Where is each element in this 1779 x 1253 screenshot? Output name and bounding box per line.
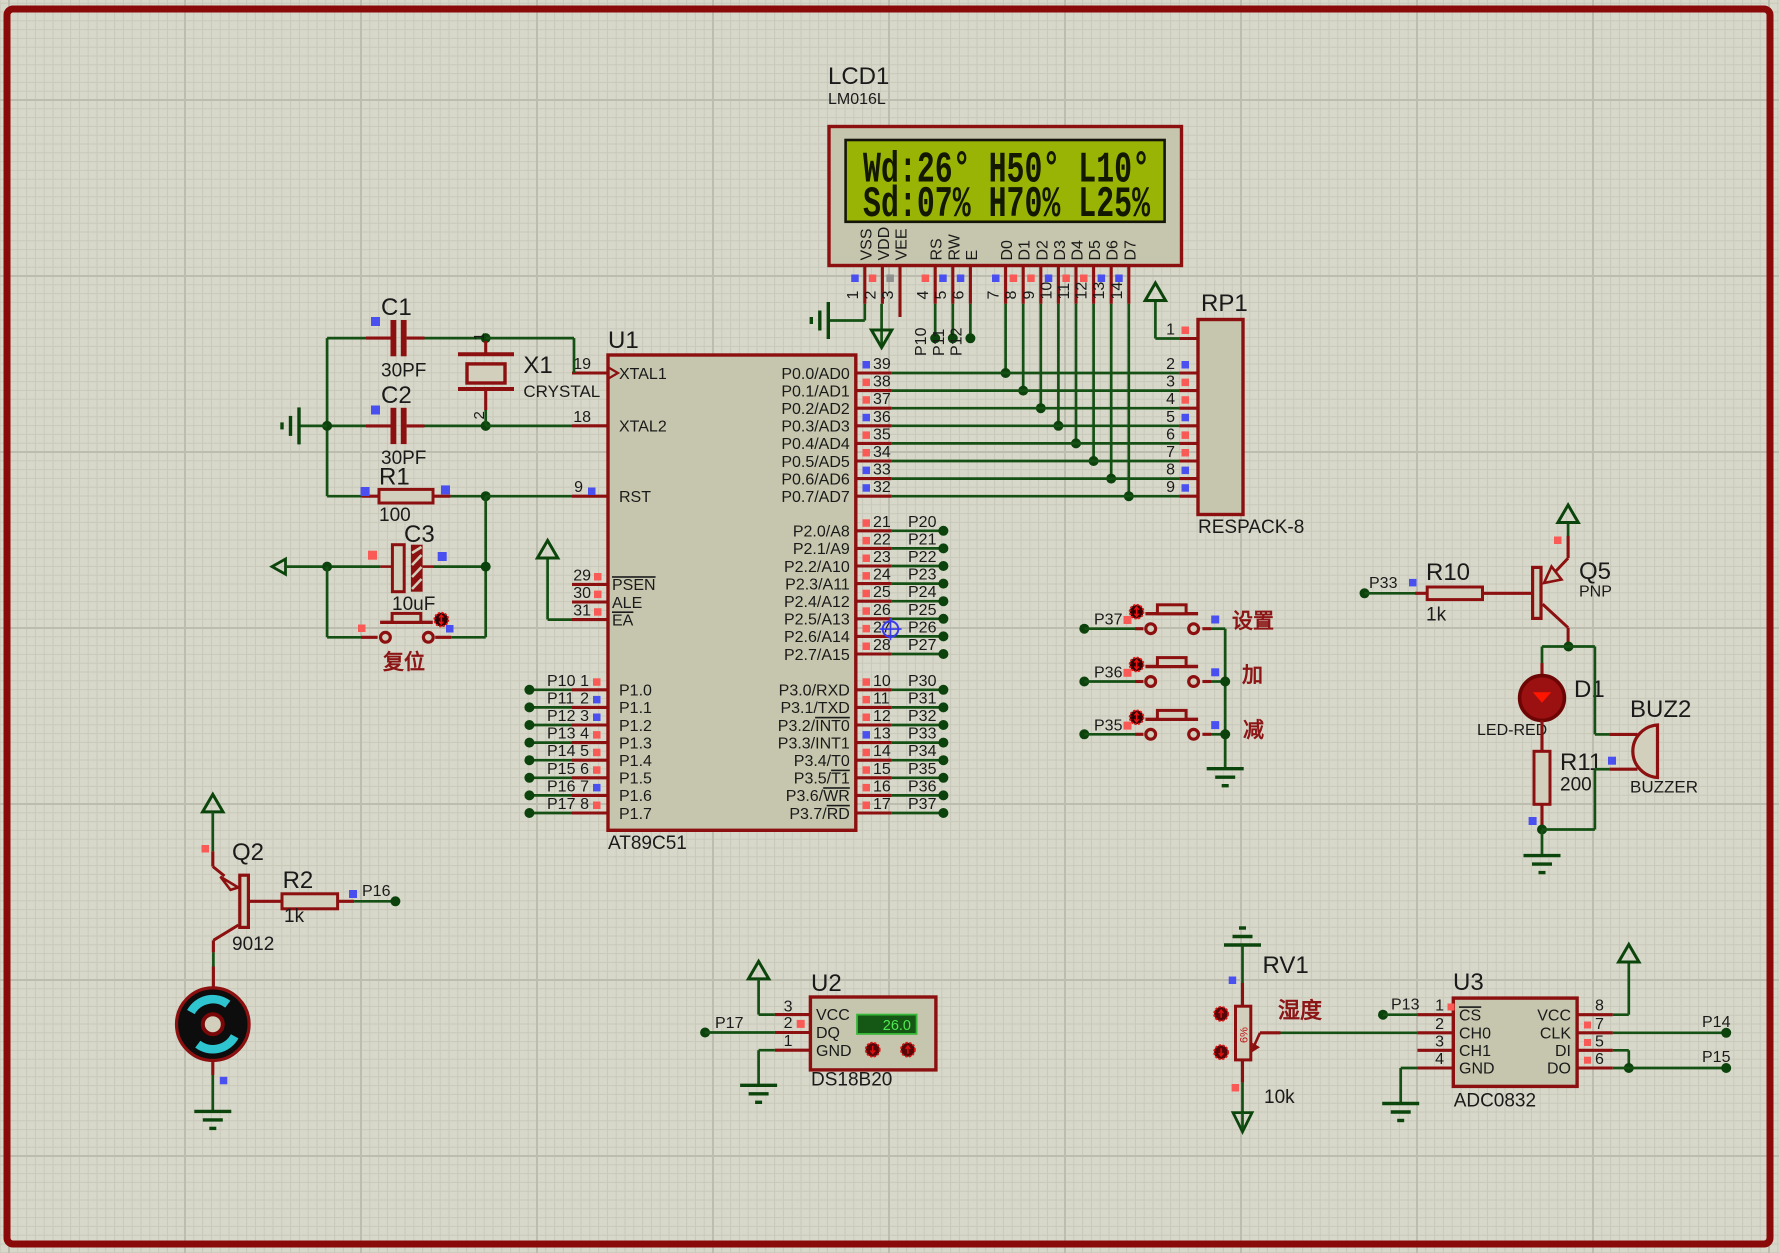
svg-text:26: 26 <box>873 602 891 619</box>
svg-text:6%: 6% <box>1239 1027 1251 1043</box>
svg-text:P37: P37 <box>1094 612 1123 629</box>
svg-text:2: 2 <box>862 291 879 300</box>
wire LCD RW pin5 to node P11 <box>951 304 954 335</box>
svg-text:P2.7/A15: P2.7/A15 <box>784 647 850 664</box>
svg-text:8: 8 <box>1595 998 1604 1015</box>
wire button P36 to common <box>1202 680 1225 683</box>
svg-text:P1.4: P1.4 <box>619 753 652 770</box>
svg-text:VDD: VDD <box>876 227 893 261</box>
svg-text:1: 1 <box>784 1033 793 1050</box>
LED D1 LED-RED <box>1477 676 1605 739</box>
svg-text:26.0: 26.0 <box>883 1018 911 1034</box>
svg-text:21: 21 <box>873 514 891 531</box>
svg-text:P23: P23 <box>908 567 937 584</box>
capacitor C2 30PF <box>327 382 486 469</box>
svg-text:P13: P13 <box>1391 997 1420 1014</box>
svg-text:D6: D6 <box>1105 240 1122 261</box>
svg-text:P26: P26 <box>908 619 937 636</box>
svg-text:EA: EA <box>612 612 634 629</box>
svg-text:5: 5 <box>1595 1033 1604 1050</box>
wire D1 to R11 <box>1540 720 1543 751</box>
push button reset <box>380 613 433 642</box>
node P10 at LCD RS <box>913 327 940 356</box>
svg-text:23: 23 <box>873 549 891 566</box>
svg-text:36: 36 <box>873 409 891 426</box>
wire P36 to button <box>1084 680 1143 683</box>
svg-text:PSEN: PSEN <box>612 577 656 594</box>
svg-text:设置: 设置 <box>1232 610 1274 633</box>
svg-text:E: E <box>964 250 981 261</box>
svg-text:GND: GND <box>816 1043 852 1060</box>
svg-text:9: 9 <box>1166 479 1175 496</box>
svg-text:P11: P11 <box>931 329 948 356</box>
node P12 at LCD E <box>948 327 975 356</box>
wire RV1 bottom to terminal <box>1232 1060 1243 1113</box>
svg-text:P21: P21 <box>908 531 937 548</box>
svg-text:P0.7/AD7: P0.7/AD7 <box>781 489 850 506</box>
U1 left pin stubs with numbers <box>572 356 608 813</box>
node P33 <box>1360 575 1398 598</box>
svg-text:2: 2 <box>1435 1016 1444 1033</box>
svg-text:复位: 复位 <box>382 650 425 674</box>
wire arrow to C3 <box>286 565 381 568</box>
svg-text:DQ: DQ <box>816 1025 840 1042</box>
wire Q2 base to R2 <box>250 900 282 903</box>
svg-text:P2.1/A9: P2.1/A9 <box>793 541 850 558</box>
svg-text:R10: R10 <box>1426 559 1470 586</box>
wire power to U2 VCC <box>759 979 811 1015</box>
svg-text:Q5: Q5 <box>1579 558 1611 585</box>
svg-text:C2: C2 <box>381 382 412 409</box>
wire button P37 to common <box>1202 627 1225 630</box>
svg-text:5: 5 <box>580 743 589 760</box>
svg-text:D5: D5 <box>1087 240 1104 261</box>
svg-text:DI: DI <box>1555 1043 1571 1060</box>
wire U3 DO to node P15 <box>1613 1067 1726 1070</box>
svg-text:RW: RW <box>946 233 963 260</box>
svg-text:C1: C1 <box>381 294 412 321</box>
svg-text:10uF: 10uF <box>392 594 435 615</box>
wire LCD VDD pin2 to power-down arrow <box>880 304 883 347</box>
wire LCD RS pin4 to node P10 <box>934 304 937 335</box>
node P35 <box>1079 717 1122 739</box>
wire buttons common rail to ground <box>1220 629 1230 769</box>
svg-text:P31: P31 <box>908 690 937 707</box>
svg-text:2: 2 <box>784 1015 793 1032</box>
svg-text:35: 35 <box>873 426 891 443</box>
svg-text:10: 10 <box>873 673 891 690</box>
svg-text:9: 9 <box>574 479 583 496</box>
svg-text:XTAL2: XTAL2 <box>619 419 667 436</box>
svg-text:CRYSTAL: CRYSTAL <box>523 382 600 401</box>
wire button P35 to common <box>1202 733 1225 736</box>
ground at crystal trunk <box>282 407 299 444</box>
node P13 <box>1378 997 1420 1020</box>
RP1 pin stubs with numbers <box>1166 322 1198 497</box>
svg-text:1: 1 <box>471 333 488 341</box>
wire ground to RV1 top <box>1229 945 1243 1006</box>
svg-text:3: 3 <box>880 291 897 300</box>
button P36 squares <box>1124 668 1220 677</box>
junction node C3 left <box>322 562 332 572</box>
power terminal at RP1 pin1 <box>1145 283 1165 301</box>
svg-text:RST: RST <box>619 489 651 506</box>
svg-text:P2.4/A12: P2.4/A12 <box>784 594 850 611</box>
svg-text:P2.3/A11: P2.3/A11 <box>785 576 850 593</box>
ground below U2 <box>740 1085 777 1102</box>
P0 bus wires from U1 to RP1 <box>892 373 1180 496</box>
svg-text:CH0: CH0 <box>1459 1025 1491 1042</box>
wire U3 CLK to node P14 <box>1613 1031 1726 1034</box>
wires U1 P1.0-P1.7 to nodes P10-P17 <box>524 673 575 818</box>
svg-text:CS: CS <box>1459 1007 1481 1024</box>
svg-text:1: 1 <box>1435 998 1444 1015</box>
wire P13 to U3 CS <box>1383 1013 1417 1016</box>
svg-text:VEE: VEE <box>894 228 911 260</box>
svg-text:P25: P25 <box>908 602 937 619</box>
crystal X1 CRYSTAL <box>458 333 600 426</box>
svg-text:P0.4/AD4: P0.4/AD4 <box>781 436 850 453</box>
wire R1 to U1 RST <box>486 495 572 498</box>
power terminal above EA <box>537 541 557 559</box>
svg-text:P0.0/AD0: P0.0/AD0 <box>781 366 850 383</box>
node P37 <box>1079 612 1122 634</box>
wire junction to buzzer bottom <box>1542 769 1638 829</box>
svg-text:7: 7 <box>580 778 589 795</box>
svg-text:D2: D2 <box>1034 240 1051 261</box>
power terminal above U2 <box>748 961 768 979</box>
node P17 <box>700 1015 743 1038</box>
svg-text:2: 2 <box>580 690 589 707</box>
svg-text:P35: P35 <box>908 761 937 778</box>
svg-text:P24: P24 <box>908 584 937 601</box>
svg-text:P13: P13 <box>547 726 576 743</box>
svg-text:P10: P10 <box>913 327 930 356</box>
svg-text:24: 24 <box>873 567 891 584</box>
resistor R2 1k <box>282 867 338 927</box>
svg-text:P1.0: P1.0 <box>619 683 652 700</box>
svg-text:R2: R2 <box>283 867 314 894</box>
svg-text:14: 14 <box>873 743 891 760</box>
svg-text:P3.6/WR: P3.6/WR <box>786 788 850 805</box>
svg-text:ALE: ALE <box>612 595 642 612</box>
svg-text:P1.2: P1.2 <box>619 718 652 735</box>
svg-text:15: 15 <box>873 761 891 778</box>
svg-text:17: 17 <box>873 796 891 813</box>
svg-text:P1.7: P1.7 <box>619 806 652 823</box>
svg-text:7: 7 <box>1595 1016 1604 1033</box>
potentiometer RV1 10k <box>1236 952 1309 1108</box>
wire junction to ground <box>1541 830 1544 856</box>
svg-text:P1.5: P1.5 <box>619 771 652 788</box>
wire RST vertical to C3 and reset button <box>484 496 487 637</box>
svg-text:3: 3 <box>784 999 793 1016</box>
svg-text:P34: P34 <box>908 743 937 760</box>
U2 pin stubs with numbers <box>775 999 811 1051</box>
LCD display LCD1 LM016L <box>828 63 1182 266</box>
motor <box>177 988 250 1061</box>
svg-text:3: 3 <box>1166 374 1175 391</box>
svg-text:Q2: Q2 <box>232 839 264 866</box>
svg-text:GND: GND <box>1459 1061 1495 1078</box>
cursor crosshair marker near pin 27 <box>879 618 901 640</box>
svg-text:P33: P33 <box>1369 575 1398 592</box>
svg-text:P36: P36 <box>908 778 937 795</box>
wire power to Q2 emitter <box>202 812 213 867</box>
svg-text:P20: P20 <box>908 514 937 531</box>
svg-text:19: 19 <box>573 356 591 373</box>
junction node C2/X1 pin2 <box>322 421 491 431</box>
wire U3 DI to DO junction <box>1613 1050 1629 1068</box>
node P14 <box>1702 1014 1731 1038</box>
svg-text:P14: P14 <box>1702 1014 1731 1031</box>
svg-text:38: 38 <box>873 374 891 391</box>
power terminal at U3 VCC <box>1619 945 1639 963</box>
adc U3 ADC0832 <box>1453 969 1577 1112</box>
power terminal at Q5 emitter <box>1558 505 1578 523</box>
wire R11 to ground junction <box>1529 804 1542 829</box>
node P16 <box>362 883 400 906</box>
wire Q2 collector to motor <box>212 940 215 988</box>
wire LCD VSS pin1 to ground <box>828 304 865 321</box>
wires U1 P3.0-P3.7 to nodes P30-P37 <box>892 673 949 818</box>
svg-text:10k: 10k <box>1264 1087 1295 1108</box>
svg-text:CLK: CLK <box>1540 1025 1571 1042</box>
wire ground to C2 row <box>300 425 327 428</box>
svg-text:6: 6 <box>1166 426 1175 443</box>
svg-text:D0: D0 <box>999 240 1016 261</box>
svg-text:30: 30 <box>573 585 591 602</box>
wire P37 to button <box>1084 627 1143 630</box>
svg-text:D1: D1 <box>1574 676 1605 703</box>
transistor Q5 PNP <box>1533 558 1612 628</box>
svg-text:VSS: VSS <box>858 228 875 260</box>
svg-text:AT89C51: AT89C51 <box>608 833 687 854</box>
wires LCD D0-D7 down to P0 bus with junctions <box>1001 304 1134 501</box>
bus entry arrow left of C3 <box>272 559 286 574</box>
svg-text:39: 39 <box>873 356 891 373</box>
svg-text:P3.7/RD: P3.7/RD <box>789 806 849 823</box>
ground at buttons common rail <box>1207 769 1244 786</box>
svg-text:6: 6 <box>1595 1051 1604 1068</box>
transistor Q2 9012 PNP <box>213 839 274 955</box>
power terminal above Q2 <box>203 794 223 812</box>
svg-text:P0.6/AD6: P0.6/AD6 <box>781 471 850 488</box>
interactive marker of P36 <box>1130 658 1144 672</box>
junction node Q5 collector <box>1564 642 1574 652</box>
svg-text:5: 5 <box>1166 409 1175 426</box>
microcontroller U1 AT89C51 <box>608 327 856 854</box>
interactive marker of P35 <box>1130 710 1144 724</box>
svg-text:4: 4 <box>1166 391 1175 408</box>
svg-text:9: 9 <box>1021 291 1038 300</box>
terminal arrow below RV1 <box>1233 1113 1252 1132</box>
junction node DI/DO <box>1624 1063 1634 1073</box>
svg-text:P17: P17 <box>715 1015 744 1032</box>
svg-text:12: 12 <box>1074 282 1091 300</box>
wire U2 GND to ground <box>759 1050 775 1085</box>
wire P33 to R10 <box>1365 579 1428 593</box>
svg-text:4: 4 <box>915 291 932 300</box>
svg-text:P12: P12 <box>547 708 576 725</box>
wire R2 to node P16 <box>338 890 396 901</box>
svg-text:7: 7 <box>986 291 1003 300</box>
wire left trunk C1-C2-R1 <box>326 338 329 496</box>
svg-text:11: 11 <box>1056 283 1073 300</box>
svg-text:P3.1/TXD: P3.1/TXD <box>780 700 849 717</box>
svg-text:34: 34 <box>873 444 891 461</box>
svg-text:RESPACK-8: RESPACK-8 <box>1198 517 1304 538</box>
RV1 wiper arrow to CH0 wire <box>1252 1033 1281 1052</box>
svg-text:P0.1/AD1: P0.1/AD1 <box>781 383 850 400</box>
svg-text:LM016L: LM016L <box>828 91 886 108</box>
svg-text:D3: D3 <box>1052 240 1069 261</box>
svg-text:P1.6: P1.6 <box>619 788 652 805</box>
node P36 <box>1079 665 1122 687</box>
svg-text:C3: C3 <box>404 521 435 548</box>
wire U3 GND to ground <box>1401 1068 1418 1104</box>
capacitor C1 30PF <box>327 294 486 382</box>
svg-text:P3.5/T1: P3.5/T1 <box>794 771 850 788</box>
ground above RV1 <box>1224 928 1261 945</box>
wire LCD E pin6 to node P12 <box>969 304 972 335</box>
svg-text:9012: 9012 <box>232 934 274 955</box>
interactive marker of reset <box>434 613 448 627</box>
svg-text:3: 3 <box>580 708 589 725</box>
svg-text:4: 4 <box>1435 1051 1444 1068</box>
wires U1 P2.0-P2.7 to nodes P20-P27 <box>892 514 949 659</box>
svg-text:P3.4/T0: P3.4/T0 <box>794 753 850 770</box>
svg-text:22: 22 <box>873 531 891 548</box>
svg-text:P16: P16 <box>547 778 576 795</box>
reset button squares <box>358 625 454 633</box>
ground at LCD VSS <box>811 302 828 339</box>
junction node R11 bottom <box>1537 825 1547 835</box>
LCD1 pin stubs, numbers and state squares <box>845 266 1129 318</box>
svg-text:1: 1 <box>845 291 862 300</box>
wire reset button right side <box>435 636 486 639</box>
push button P36 <box>1145 658 1198 687</box>
svg-text:5: 5 <box>933 291 950 300</box>
svg-text:P16: P16 <box>362 883 391 900</box>
svg-text:VCC: VCC <box>816 1007 850 1024</box>
push button P35 <box>1145 710 1198 739</box>
svg-text:P35: P35 <box>1094 717 1123 734</box>
resistor R10 1k <box>1426 559 1483 626</box>
svg-text:14: 14 <box>1109 282 1126 300</box>
svg-text:2: 2 <box>1166 356 1175 373</box>
svg-text:P0.5/AD5: P0.5/AD5 <box>781 454 850 471</box>
resistor pack RP1 RESPACK-8 <box>1198 290 1304 538</box>
power terminal below LCD VDD <box>871 330 891 348</box>
svg-text:P15: P15 <box>1702 1049 1731 1066</box>
U1 right pin stubs with numbers <box>856 356 892 813</box>
ground below U3 <box>1382 1104 1419 1121</box>
wire Q5 collector junction to buzzer top <box>1569 647 1638 735</box>
svg-text:12: 12 <box>873 708 891 725</box>
resistor R11 200 <box>1534 749 1602 804</box>
svg-text:28: 28 <box>873 637 891 654</box>
svg-text:2: 2 <box>471 411 488 419</box>
svg-text:8: 8 <box>1166 462 1175 479</box>
svg-text:Sd:07% H70% L25%: Sd:07% H70% L25% <box>863 180 1150 230</box>
svg-text:37: 37 <box>873 391 891 408</box>
svg-text:X1: X1 <box>523 352 552 379</box>
wire Q5 emitter to power <box>1554 523 1568 558</box>
svg-text:U2: U2 <box>811 970 842 997</box>
svg-text:P3.0/RXD: P3.0/RXD <box>779 683 850 700</box>
svg-text:1k: 1k <box>284 906 305 927</box>
temperature sensor U2 DS18B20 <box>810 970 936 1091</box>
svg-text:P0.2/AD2: P0.2/AD2 <box>781 401 850 418</box>
svg-text:P1.1: P1.1 <box>619 700 652 717</box>
svg-text:P12: P12 <box>948 327 965 356</box>
wire U3 VCC to power <box>1613 963 1629 1015</box>
svg-text:6: 6 <box>950 291 967 300</box>
svg-text:1: 1 <box>1166 322 1175 339</box>
svg-text:8: 8 <box>1003 291 1020 300</box>
svg-text:P14: P14 <box>547 743 576 760</box>
svg-text:U3: U3 <box>1453 969 1484 996</box>
ground below motor <box>194 1111 231 1128</box>
wire junction to LED D1 <box>1542 647 1569 676</box>
svg-text:D7: D7 <box>1122 240 1139 261</box>
svg-text:P22: P22 <box>908 549 937 566</box>
svg-text:CH1: CH1 <box>1459 1043 1491 1060</box>
RV1 interactive markers <box>1214 1007 1228 1059</box>
resistor R1 100 <box>327 464 486 527</box>
svg-text:11: 11 <box>873 690 890 707</box>
wire RP1 pin1 to power <box>1155 301 1179 339</box>
svg-text:8: 8 <box>580 796 589 813</box>
svg-text:31: 31 <box>573 603 591 620</box>
wire C2/X1 to U1 XTAL2 <box>486 425 572 428</box>
svg-text:6: 6 <box>580 761 589 778</box>
svg-text:DO: DO <box>1547 1061 1571 1078</box>
wire X1/C1 to U1 XTAL1 <box>486 338 574 373</box>
svg-text:25: 25 <box>873 584 891 601</box>
svg-text:32: 32 <box>873 479 891 496</box>
svg-text:7: 7 <box>1166 444 1175 461</box>
interactive marker of P37 <box>1130 605 1144 619</box>
buzzer BUZ2 <box>1608 696 1698 797</box>
svg-text:P2.0/A8: P2.0/A8 <box>793 524 850 541</box>
svg-text:P10: P10 <box>547 673 576 690</box>
svg-text:湿度: 湿度 <box>1278 998 1323 1023</box>
wire RV1 wiper to U3 CH0 <box>1281 1031 1418 1034</box>
svg-text:P11: P11 <box>547 690 574 707</box>
svg-text:30PF: 30PF <box>381 361 426 382</box>
junction node C1/X1 pin1 <box>481 333 491 343</box>
svg-text:加: 加 <box>1241 664 1263 687</box>
svg-text:D1: D1 <box>1017 240 1034 261</box>
svg-text:P36: P36 <box>1094 665 1123 682</box>
wire C3 left down to reset button <box>327 567 378 638</box>
svg-text:BUZZER: BUZZER <box>1630 778 1698 797</box>
svg-text:P0.3/AD3: P0.3/AD3 <box>781 419 850 436</box>
svg-text:16: 16 <box>873 778 891 795</box>
svg-text:R1: R1 <box>379 464 410 491</box>
svg-text:P30: P30 <box>908 673 937 690</box>
node P15 <box>1702 1049 1731 1073</box>
svg-text:P37: P37 <box>908 796 937 813</box>
junction node RST <box>481 491 491 501</box>
U3 pin stubs with numbers <box>1417 998 1612 1068</box>
svg-text:DS18B20: DS18B20 <box>811 1070 892 1091</box>
svg-text:1: 1 <box>580 673 589 690</box>
svg-text:D4: D4 <box>1070 240 1087 261</box>
svg-text:3: 3 <box>1435 1033 1444 1050</box>
